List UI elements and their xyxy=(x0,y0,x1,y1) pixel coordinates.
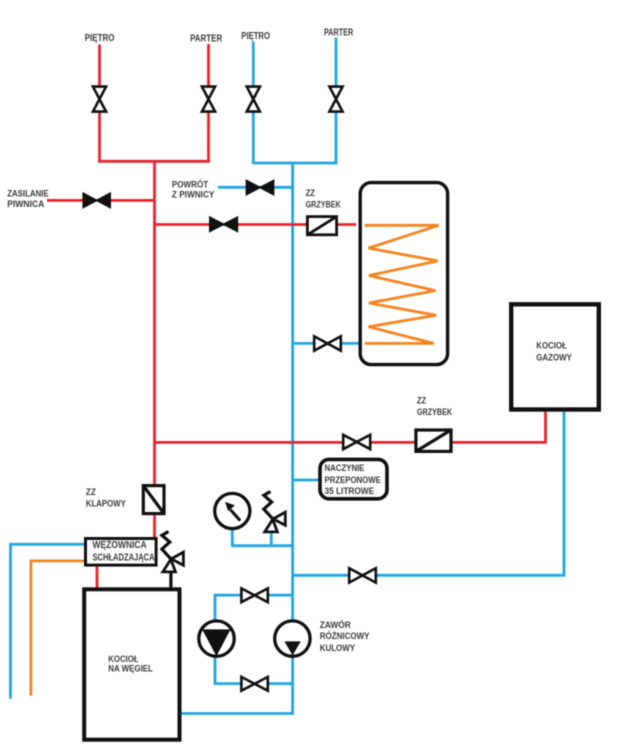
svg-text:ZASILANIE: ZASILANIE xyxy=(7,188,49,199)
wire stub to expansion vessel xyxy=(293,479,319,482)
svg-text:PARTER: PARTER xyxy=(324,27,354,38)
svg-text:SCHŁADZAJĄCA: SCHŁADZAJĄCA xyxy=(93,553,155,564)
svg-text:PIWNICA: PIWNICA xyxy=(7,199,44,210)
safety valve (coal boiler) xyxy=(162,532,184,589)
wire blue to tank bottom xyxy=(293,342,359,345)
svg-text:ZZ: ZZ xyxy=(417,396,426,407)
wire blue header xyxy=(252,162,338,165)
svg-text:Z PIWNICY: Z PIWNICY xyxy=(172,190,215,201)
svg-text:GRZYBEK: GRZYBEK xyxy=(306,200,341,211)
svg-text:35 LITROWE: 35 LITROWE xyxy=(325,486,375,497)
wire red below flap check valve xyxy=(153,515,156,538)
wire red supply to tank coil xyxy=(155,223,357,226)
valve tank bottom (open) xyxy=(314,336,341,350)
valve pump loop top (open) xyxy=(241,588,267,602)
pump P1 (circulation, filled rotor) xyxy=(199,621,234,656)
svg-text:KLAPOWY: KLAPOWY xyxy=(86,499,126,510)
wire red stub to coal boiler xyxy=(96,567,99,588)
check valve ZZ GRZYBEK (boiler return) xyxy=(416,430,451,451)
svg-text:ZAWÓR: ZAWÓR xyxy=(320,619,352,630)
svg-text:PIĘTRO: PIĘTRO xyxy=(241,31,270,42)
wire pump bypass loop xyxy=(215,595,293,684)
svg-text:PARTER: PARTER xyxy=(190,34,223,45)
svg-text:GRZYBEK: GRZYBEK xyxy=(417,407,452,418)
valve blue gas boiler line (open) xyxy=(349,568,376,582)
valve piętro red xyxy=(93,87,106,112)
svg-text:WĘŻOWNICA: WĘŻOWNICA xyxy=(93,538,147,551)
wire blue to coal boiler xyxy=(182,712,295,715)
svg-text:RÓŻNICOWY: RÓŻNICOWY xyxy=(320,630,370,641)
wire red boiler return xyxy=(155,412,546,443)
valve powrót z piwnicy (filled) xyxy=(246,180,273,194)
wire red header xyxy=(98,160,210,163)
svg-text:NACZYNIE: NACZYNIE xyxy=(325,463,365,474)
wire blue riser PIETRO xyxy=(252,42,255,163)
svg-text:KULOWY: KULOWY xyxy=(320,643,355,653)
valve tank supply (filled) xyxy=(210,217,238,231)
wire cooling coil orange outlet xyxy=(31,561,85,696)
wire blue riser PARTER xyxy=(335,38,338,164)
wire red riser PIETRO xyxy=(98,45,101,162)
wire gauge group manifold xyxy=(231,529,293,546)
svg-text:NA WĘGIEL: NA WĘGIEL xyxy=(108,664,153,675)
coal boiler KOCIOŁ NA WĘGIEL xyxy=(84,589,179,739)
wire blue from gas boiler xyxy=(293,412,564,576)
pump P2 (differential ball valve) xyxy=(275,621,310,656)
pressure gauge xyxy=(215,493,250,528)
heating coil in tank xyxy=(365,225,439,343)
tank DHW cylinder xyxy=(360,183,447,365)
valve parter red xyxy=(202,87,215,112)
svg-text:ZZ: ZZ xyxy=(86,487,96,498)
svg-text:ZZ: ZZ xyxy=(306,188,316,199)
wire cooling coil blue feed xyxy=(11,544,86,699)
wire stem to boiler xyxy=(169,572,172,588)
valve zasilanie piwnica (filled) xyxy=(83,193,110,207)
wire blue main drop xyxy=(291,163,294,714)
svg-text:GAZOWY: GAZOWY xyxy=(536,353,572,364)
cooling coil box WĘŻOWNICA xyxy=(86,539,157,566)
check valve ZZ GRZYBEK (tank line) xyxy=(307,217,336,235)
wire POWROT Z PIWNICY branch xyxy=(218,186,293,189)
safety valve (gauge group) xyxy=(264,492,286,532)
wire ZASILANIE PIWNICA branch xyxy=(47,199,155,202)
check valve ZZ KLAPOWY (vertical) xyxy=(143,486,164,514)
valve pump loop bottom (open) xyxy=(241,677,267,691)
svg-text:PRZEPONOWE: PRZEPONOWE xyxy=(325,475,381,486)
valve piętro blue xyxy=(247,87,260,112)
expansion vessel box NACZYNIE xyxy=(320,459,387,498)
valve parter blue xyxy=(329,87,342,112)
svg-text:KOCIOŁ: KOCIOŁ xyxy=(536,340,567,351)
svg-text:PIĘTRO: PIĘTRO xyxy=(85,33,115,44)
wire red riser PARTER xyxy=(207,44,210,161)
gas boiler KOCIOŁ GAZOWY xyxy=(511,304,599,409)
wire red main drop xyxy=(153,161,156,485)
valve boiler return (open) xyxy=(343,435,370,449)
